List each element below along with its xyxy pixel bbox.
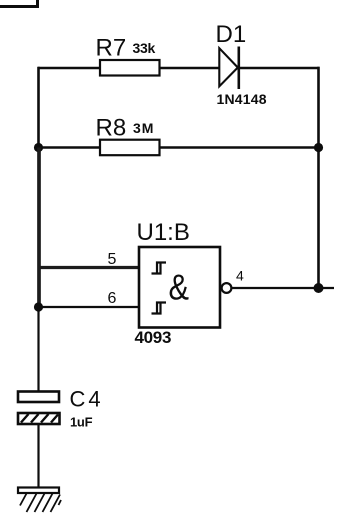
wire left rail vertical (thick)	[37, 148, 41, 308]
wire right rail vertical	[317, 67, 320, 288]
resistor R8	[96, 115, 160, 156]
svg-text:C4: C4	[70, 386, 104, 411]
NAND gate U1:B body	[139, 247, 220, 328]
resistor R7	[96, 35, 160, 76]
wire to gate pin 5 (thick)	[38, 266, 140, 269]
svg-text:U1:B: U1:B	[137, 219, 190, 246]
svg-text:R8: R8	[96, 115, 127, 142]
diode D1 1N4148	[216, 21, 267, 107]
wire R8 to right rail	[160, 146, 319, 149]
wire left rail vertical (thin, top)	[37, 67, 40, 148]
capacitor C4 top plate	[18, 392, 59, 403]
wire C4 to ground	[37, 424, 39, 489]
junction left rail / pin 6	[34, 302, 43, 311]
junction right rail / R8	[314, 143, 323, 152]
svg-text:4093: 4093	[135, 328, 172, 347]
wire left rail down to C4	[37, 307, 39, 392]
schmitt trigger symbol (pin 6 input)	[152, 303, 167, 314]
svg-text:1N4148: 1N4148	[217, 91, 267, 107]
partial component box (cut off at top-left corner)	[0, 0, 38, 8]
svg-text:4: 4	[236, 267, 244, 283]
junction output / right rail	[314, 283, 324, 293]
svg-text:&: &	[169, 267, 190, 308]
output inversion bubble	[222, 283, 232, 293]
svg-text:5: 5	[108, 251, 117, 268]
ground	[18, 488, 61, 513]
wire R7 to D1 anode	[160, 67, 220, 70]
wire left rail to R8	[38, 146, 101, 149]
wire to gate pin 6	[37, 306, 139, 308]
svg-text:3M: 3M	[133, 120, 154, 136]
wire gate output to right rail	[232, 287, 334, 289]
capacitor C4 bottom plate (hatched)	[18, 413, 60, 424]
wire from left rail to R7	[38, 67, 100, 70]
svg-text:6: 6	[108, 290, 117, 307]
svg-text:R7: R7	[96, 35, 127, 62]
svg-text:1uF: 1uF	[70, 415, 93, 430]
svg-text:D1: D1	[216, 21, 247, 48]
svg-text:33k: 33k	[133, 40, 156, 56]
junction left rail / R8	[34, 143, 43, 152]
wire D1 cathode to top-right corner	[239, 67, 320, 70]
schmitt trigger symbol (pin 5 input)	[152, 263, 167, 274]
